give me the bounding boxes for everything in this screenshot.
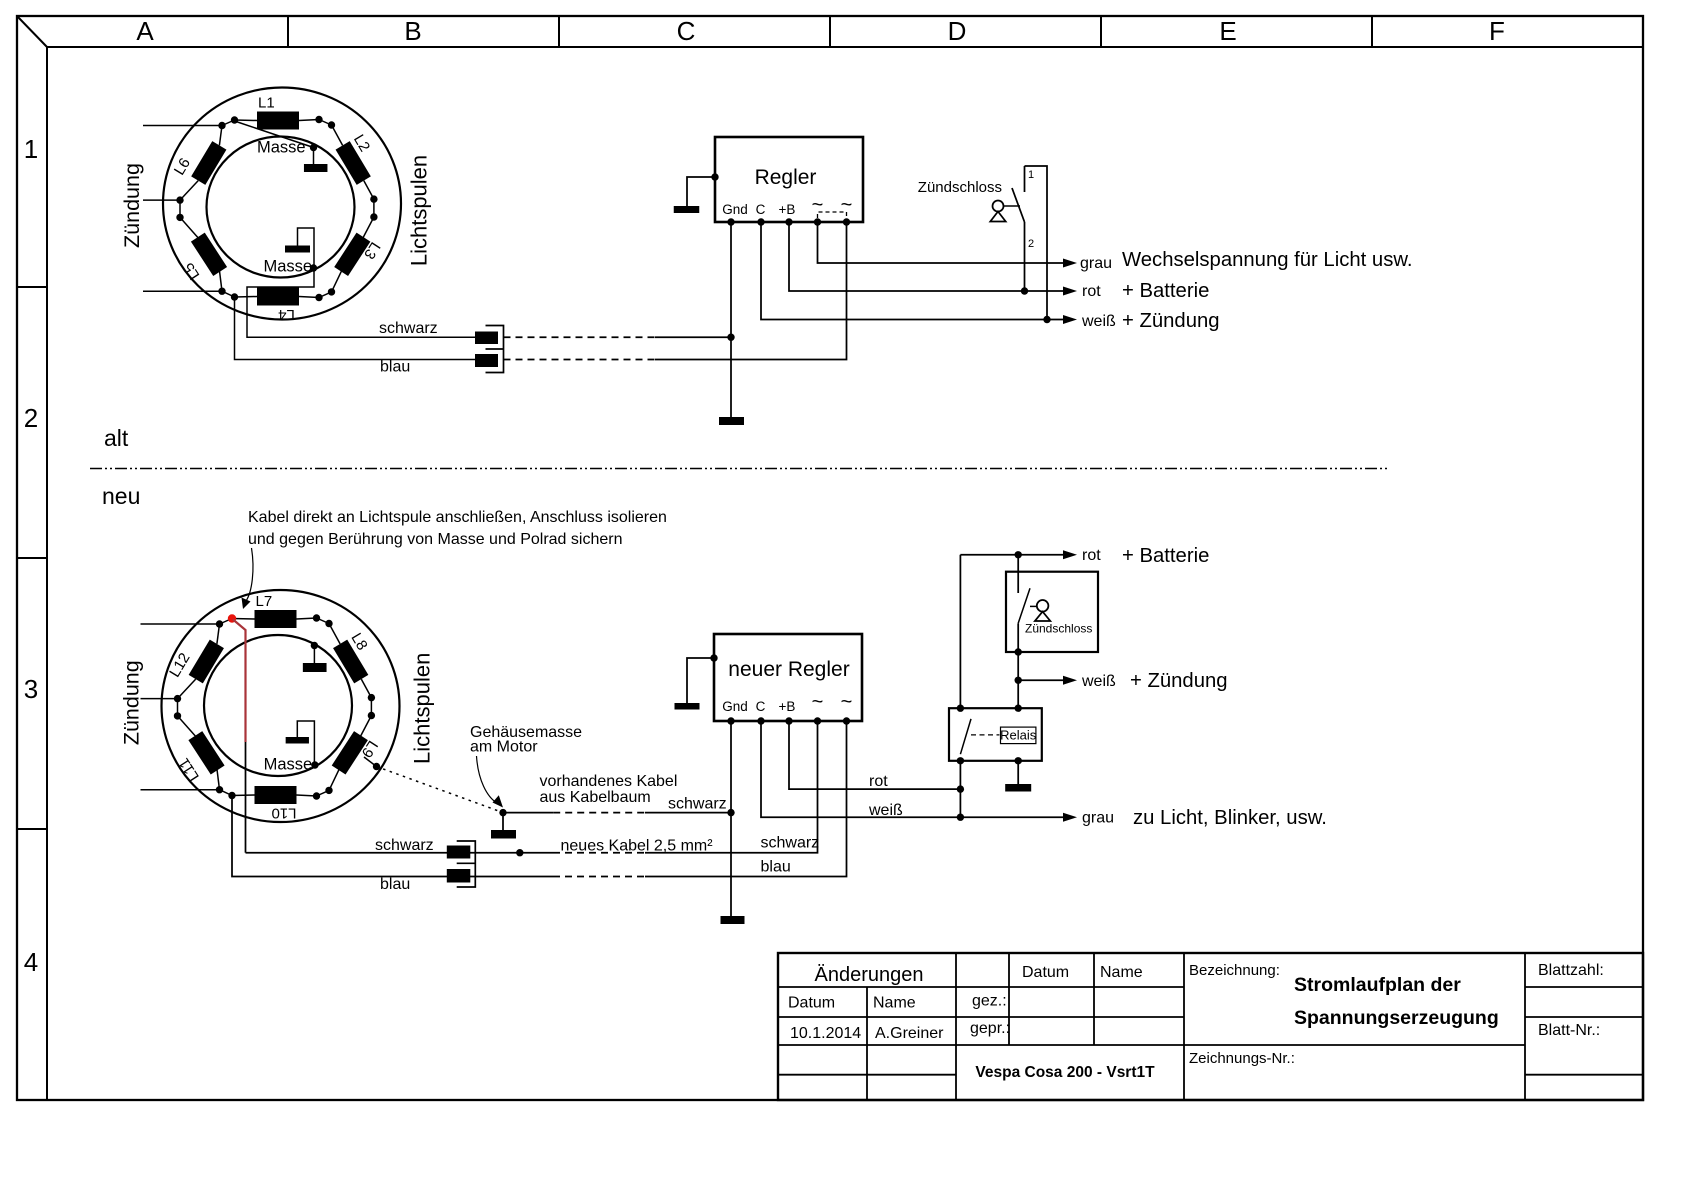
node regulator case ground (alt) [711,173,718,180]
node switch feed junction (neu) [1015,551,1022,558]
title block outer [778,953,1643,1100]
node case at L9 (neu) [373,763,380,770]
svg-text:blau: blau [380,359,410,376]
node weiß joins relay wire (neu) [957,814,964,821]
svg-text:Zeichnungs-Nr.:: Zeichnungs-Nr.: [1189,1050,1295,1067]
stator inner circle (body / Masse) [204,635,352,776]
svg-text:und gegen Berührung von Masse: und gegen Berührung von Masse und Polrad… [248,531,622,548]
svg-text:+ Zündung: + Zündung [1122,310,1220,332]
frame column separators [287,16,289,47]
arrow weiß output (neu) [1063,676,1077,685]
svg-text:aus Kabelbaum: aus Kabelbaum [540,789,651,806]
svg-text:Wechselspannung für Licht usw.: Wechselspannung für Licht usw. [1122,249,1413,271]
wire schwarz dashed segment (neu) [553,852,645,854]
wire schwarz to regulator ~ pin (neu) [645,721,818,853]
ground bar at regulator case (alt) [674,206,700,213]
coil L9 [332,731,368,774]
ground bar Masse bottom (alt) [285,246,310,253]
wire Zündung bottom lead [141,789,220,791]
svg-text:E: E [1219,16,1236,46]
svg-text:Blattzahl:: Blattzahl: [1538,962,1604,979]
wire vorhandenes Kabel solid (neu) [503,812,553,814]
svg-text:Spannungserzeugung: Spannungserzeugung [1294,1007,1499,1029]
pin nodes of neuer Regler [727,717,734,724]
ground stub Gehäusemasse [502,813,504,830]
node Masse bottom on stator body (alt) [310,264,317,271]
wire weiß/grau output (neu) [960,816,1064,818]
ignition switch Zündschloss (alt) pin 1 stub [1024,166,1026,192]
svg-text:+ Batterie: + Batterie [1122,545,1209,567]
wire weiß + Zündung output (neu) [1018,679,1064,681]
svg-text:A: A [136,16,154,46]
ground bar Masse (neu) [286,737,309,744]
svg-text:A.Greiner: A.Greiner [875,1025,944,1042]
ground bar below regulator (alt) [719,417,744,425]
wire C pin to weiß output (alt) [761,222,1064,320]
svg-text:~: ~ [841,691,853,713]
relay box [949,708,1042,761]
svg-text:Bezeichnung:: Bezeichnung: [1189,962,1280,979]
wire vorhandenes Kabel to regulator Gnd (neu) [645,812,731,814]
svg-text:Änderungen: Änderungen [815,964,924,986]
svg-text:Zündung: Zündung [120,163,144,248]
wire Masse bottom to schwarz cable (alt) [247,228,475,337]
relay actuation dashed link [971,734,999,736]
key symbol link line (neu switch) [1030,605,1037,607]
svg-text:weiß: weiß [1081,673,1116,690]
coil L8 [333,640,368,684]
svg-text:Stromlaufplan der: Stromlaufplan der [1294,974,1461,996]
wire switch to relay (neu) [1017,680,1019,708]
wire +B pin to rot (neu) [789,721,960,789]
wire battery into switch (neu) [1017,555,1019,593]
wire schwarz continues from red wire (neu) [245,742,247,853]
connector housing (alt) [486,326,504,373]
wire Masse hook (neu) [297,721,314,765]
node Masse on stator body (neu) [311,761,318,768]
svg-text:2: 2 [1028,238,1034,250]
ground bar below neuer Regler [721,916,745,924]
key symbol link line (alt switch) [1004,205,1021,207]
svg-text:gez.:: gez.: [972,993,1007,1010]
svg-text:schwarz: schwarz [375,837,434,854]
arrow grau output (alt) [1063,259,1077,268]
svg-text:Regler: Regler [755,166,817,189]
frame corner bevel [17,16,47,47]
node regulator case ground (neu) [710,654,717,661]
svg-text:neu: neu [102,483,140,509]
wire switch to output (neu) [1017,623,1019,680]
title block horizontal dividers [778,986,1184,988]
svg-text:vorhandenes Kabel: vorhandenes Kabel [540,773,678,790]
svg-text:Lichtspulen: Lichtspulen [407,155,432,266]
note arrow to red terminal [246,548,253,601]
svg-text:Masse: Masse [264,756,313,774]
wire ~ pin to grau output (alt) [818,222,1065,263]
svg-text:+B: +B [779,699,796,714]
svg-text:C: C [756,202,766,217]
svg-text:L4: L4 [278,306,295,323]
node weiß/switch junction (alt) [1043,316,1050,323]
wire L9 to case node (neu) [364,757,377,767]
node on stator body below L8 (neu) [311,642,318,649]
svg-text:schwarz: schwarz [761,835,820,852]
svg-text:rot: rot [1082,283,1101,300]
svg-text:am Motor: am Motor [470,739,538,756]
svg-text:schwarz: schwarz [668,796,727,813]
wire schwarz dashed harness segment (alt) [504,336,656,338]
svg-text:Datum: Datum [788,995,835,1012]
svg-text:Kabel direkt an Lichtspule ans: Kabel direkt an Lichtspule anschließen, … [248,509,667,526]
svg-text:Masse: Masse [257,139,306,157]
svg-text:grau: grau [1082,810,1114,827]
svg-text:rot: rot [869,773,888,790]
node weiß junction (neu) [1015,677,1022,684]
svg-text:Relais: Relais [1000,728,1037,743]
dashed link between ~ pins (alt) [818,212,847,218]
svg-text:~: ~ [812,194,824,216]
regulator box Regler (alt) [715,137,863,222]
node at switch box bottom (neu) [1015,648,1022,655]
arrow rot output (neu) [1063,550,1077,559]
node vorhandenes Kabel joins Gnd (neu) [727,809,734,816]
svg-text:schwarz: schwarz [379,320,438,337]
winding junction dots [216,620,223,627]
svg-text:C: C [756,699,766,714]
svg-text:+B: +B [779,202,796,217]
svg-text:weiß: weiß [1081,313,1116,330]
svg-text:Zündung: Zündung [120,660,144,745]
svg-text:Datum: Datum [1022,964,1069,981]
stator flywheel outer ring [163,88,401,320]
frame inner top line [47,46,1643,48]
wire C pin to weiß (neu) [761,721,960,817]
connector plug blau contact (neu) [447,869,471,883]
wire battery feed vertical (neu) [959,555,961,708]
wire Gnd pin down to ground (neu) [730,721,732,916]
svg-text:+ Batterie: + Batterie [1122,280,1209,302]
frame row separators [17,286,47,288]
svg-text:Name: Name [1100,964,1143,981]
svg-text:gepr.:: gepr.: [970,1020,1010,1037]
stator flywheel outer ring [162,590,400,822]
connector plug blau contact (alt) [475,354,498,367]
svg-text:blau: blau [380,876,410,893]
divider dash-dot line between alt and neu [90,468,1390,470]
svg-text:grau: grau [1080,255,1112,272]
coil L4 [257,288,299,306]
connector plug schwarz contact (alt) [475,332,498,345]
key symbol triangle (neu switch) [1035,612,1050,621]
coil L1 [257,112,299,130]
wire Zündung top lead [143,125,222,127]
wire +B pin to rot output (alt) [789,222,1064,291]
svg-text:neuer Regler: neuer Regler [728,658,849,681]
svg-text:Name: Name [873,995,916,1012]
node splice on schwarz (neu) [516,849,523,856]
winding chain wires [220,619,233,625]
coil L6 [191,141,226,185]
svg-text:1: 1 [24,134,38,164]
svg-text:Vespa Cosa 200 - Vsrt1T: Vespa Cosa 200 - Vsrt1T [975,1064,1155,1081]
winding chain wires [222,120,235,126]
svg-text:Lichtspulen: Lichtspulen [410,653,435,764]
stator inner circle (body / Masse) [207,137,355,278]
wire blau dashed harness segment (alt) [504,359,656,361]
svg-text:L1: L1 [258,95,275,112]
key symbol triangle (alt switch) [990,212,1005,222]
svg-text:Gnd: Gnd [722,202,748,217]
svg-text:blau: blau [761,859,791,876]
svg-text:Blatt-Nr.:: Blatt-Nr.: [1538,1022,1600,1039]
svg-text:4: 4 [24,947,38,977]
pin nodes of Regler (alt) [727,218,734,225]
key symbol circle (neu switch) [1037,600,1049,612]
svg-text:C: C [677,16,696,46]
ground bar Masse top (alt) [304,164,328,172]
node rot/switch junction (alt) [1021,287,1028,294]
switch blade (alt) [1012,188,1025,222]
svg-text:Masse: Masse [264,258,313,276]
title block vertical dividers [866,987,868,1100]
wire Gnd pin down to ground (alt) [730,222,732,417]
svg-text:2: 2 [24,403,38,433]
node Masse top on stator body (alt) [310,144,317,151]
svg-text:F: F [1489,16,1505,46]
svg-text:alt: alt [104,425,129,451]
ground bar below relay [1005,784,1031,792]
switch blade (neu) [1018,588,1030,623]
wire rot + Batterie output (neu) [960,554,1064,556]
red wire from L7 terminal (neu) [233,620,246,743]
coil L10 [255,786,297,804]
svg-text:3: 3 [24,674,38,704]
node schwarz joins Gnd wire (alt) [727,334,734,341]
svg-text:Zündschloss: Zündschloss [1025,622,1092,636]
arrow from Gehäusemasse label to node [477,756,498,803]
red terminal node at L7 (neu) [228,614,236,622]
wire from L1 terminal to Masse (alt top) [235,121,314,148]
coil L2 [336,141,371,185]
wire Zündung middle lead [143,199,180,201]
wire blau from L10 (neu) [232,796,553,877]
coil L5 [191,233,227,276]
wire Zündung top lead [141,623,220,625]
wire Zündung middle lead [141,698,178,700]
arrow grau output (neu) [1063,813,1077,822]
ground bar Gehäusemasse am Motor [491,830,516,839]
svg-text:10.1.2014: 10.1.2014 [790,1025,861,1042]
svg-text:Gnd: Gnd [722,699,748,714]
svg-text:rot: rot [1082,547,1101,564]
svg-text:B: B [404,16,421,46]
coil L12 [189,640,224,684]
wire blau from L4 (alt) [235,297,476,359]
node Gehäusemasse [499,809,506,816]
svg-text:D: D [948,16,967,46]
wire regulator case to ground (alt) [687,177,715,206]
coil L3 [334,233,370,276]
relay label box [1001,727,1036,744]
key symbol circle (alt switch) [993,201,1004,212]
winding junction dots [218,122,225,129]
wire vorhandenes Kabel dashed (neu) [553,812,645,814]
ignition switch box (neu) [1006,572,1098,652]
wire blau dashed segment (neu) [553,876,645,878]
svg-text:L7: L7 [256,593,273,610]
coil L7 [255,610,297,628]
svg-text:neues Kabel 2,5 mm²: neues Kabel 2,5 mm² [561,838,714,855]
wire schwarz from stator to splice (neu) [246,852,554,854]
svg-text:weiß: weiß [868,802,903,819]
arrow rot output (alt) [1063,287,1077,296]
wire blau to regulator ~ pin (neu) [645,721,847,877]
wire Zündung bottom lead [143,290,222,292]
relay contact blade [960,719,971,754]
wire schwarz to regulator Gnd (alt) [655,336,731,338]
relay pin nodes [957,705,964,712]
dotted wire stator case to Gehäusemasse [377,767,504,813]
ground bar at regulator case (neu) [675,703,700,710]
svg-text:+ Zündung: + Zündung [1130,670,1228,692]
connector plug schwarz contact (neu) [447,846,471,859]
wire relay to ground (neu) [1017,761,1019,784]
regulator box neuer Regler [714,634,862,721]
wire switch pin1 to weiß line (alt) [1025,166,1048,320]
connector housing (neu) [457,841,476,887]
svg-text:Zündschloss: Zündschloss [918,179,1002,196]
svg-text:~: ~ [812,691,824,713]
frame inner left line [46,47,48,1100]
svg-text:L10: L10 [271,805,296,822]
coil L11 [188,731,224,774]
wire blau to regulator ~ pin (alt) [655,222,847,360]
node rot joins relay wire (neu) [957,785,964,792]
wire regulator case to ground (neu) [687,658,714,703]
wire switch pin2 to rot line (alt) [1024,222,1026,291]
arrow weiß output (alt) [1063,315,1077,324]
svg-text:zu Licht, Blinker, usw.: zu Licht, Blinker, usw. [1133,807,1327,829]
svg-text:1: 1 [1028,169,1034,181]
